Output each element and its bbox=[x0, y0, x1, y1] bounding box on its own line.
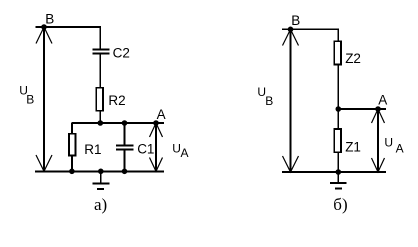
svg-text:A: A bbox=[396, 142, 404, 156]
svg-text:Z2: Z2 bbox=[345, 51, 361, 66]
svg-text:B: B bbox=[45, 11, 54, 26]
svg-text:A: A bbox=[157, 107, 166, 122]
svg-text:C2: C2 bbox=[113, 45, 130, 60]
svg-text:B: B bbox=[291, 13, 300, 28]
svg-text:R2: R2 bbox=[108, 93, 125, 108]
svg-text:B: B bbox=[26, 92, 34, 106]
svg-text:Z1: Z1 bbox=[345, 140, 361, 155]
svg-text:б): б) bbox=[333, 195, 347, 214]
svg-text:A: A bbox=[181, 146, 189, 160]
svg-text:R1: R1 bbox=[84, 142, 101, 157]
svg-text:а): а) bbox=[94, 195, 107, 214]
svg-text:C1: C1 bbox=[137, 141, 154, 156]
svg-text:A: A bbox=[378, 93, 387, 108]
svg-text:U: U bbox=[384, 136, 393, 150]
svg-text:B: B bbox=[265, 94, 273, 108]
